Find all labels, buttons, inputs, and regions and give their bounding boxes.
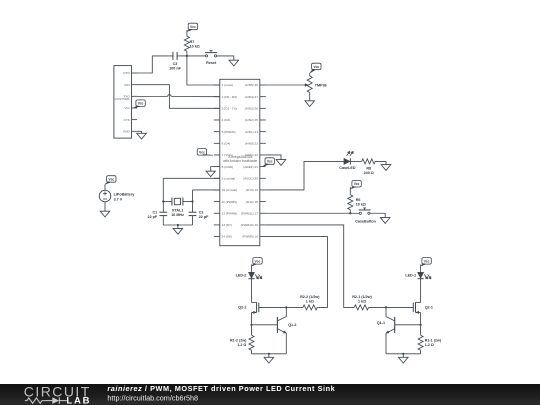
svg-text:GND: GND [123, 129, 131, 133]
svg-text:10 (crystal): 10 (crystal) [222, 188, 237, 192]
svg-text:Vcc: Vcc [138, 102, 144, 106]
svg-text:C1: C1 [152, 211, 157, 215]
svg-text:(D12) 18: (D12) 18 [246, 200, 258, 204]
svg-text:R7: R7 [190, 40, 195, 44]
svg-text:R1-1 (2w): R1-1 (2w) [425, 338, 442, 342]
svg-text:R1-2 (2w): R1-2 (2w) [230, 338, 247, 342]
svg-text:Vcc: Vcc [125, 106, 131, 110]
svg-text:(AVCC) 20: (AVCC) 20 [243, 176, 258, 180]
svg-text:rainierez / PWM, MOSFET driven: rainierez / PWM, MOSFET driven Power LED… [107, 384, 335, 393]
svg-text:3 (D1 - TX): 3 (D1 - TX) [222, 106, 237, 110]
svg-text:10 kΩ: 10 kΩ [356, 203, 366, 207]
svg-text:13 (D7): 13 (D7) [222, 223, 232, 227]
svg-text:LED-2: LED-2 [236, 273, 247, 277]
svg-text:CaseLED: CaseLED [339, 166, 356, 170]
svg-text:CUSTOM1: CUSTOM1 [115, 97, 130, 101]
svg-text:C3: C3 [173, 62, 178, 66]
svg-text:1 kΩ: 1 kΩ [358, 299, 366, 303]
svg-text:Q1-2: Q1-2 [288, 323, 296, 327]
svg-text:R2-2 (1/2w): R2-2 (1/2w) [300, 295, 320, 299]
svg-text:14 (D8): 14 (D8) [222, 235, 232, 239]
svg-text:Vcc: Vcc [424, 259, 430, 263]
svg-text:10 kΩ: 10 kΩ [190, 45, 200, 49]
svg-text:(AIN3) 26: (AIN3) 26 [245, 106, 259, 110]
svg-text:(PWM10) 16: (PWM10) 16 [241, 223, 259, 227]
svg-text:(AREF) 21: (AREF) 21 [243, 165, 258, 169]
svg-text:Vcc: Vcc [354, 182, 360, 186]
svg-text:TMP36: TMP36 [315, 83, 327, 87]
svg-text:1 kΩ: 1 kΩ [306, 299, 314, 303]
svg-text:Vcc: Vcc [313, 65, 319, 69]
svg-text:5 (PWM3): 5 (PWM3) [222, 130, 236, 134]
svg-text:3.7 V: 3.7 V [114, 197, 123, 201]
svg-text:http://circuitlab.com/cb6r5h8: http://circuitlab.com/cb6r5h8 [107, 394, 198, 403]
svg-text:LED-1: LED-1 [405, 273, 416, 277]
svg-text:100 nF: 100 nF [169, 67, 181, 71]
svg-text:22 pF: 22 pF [199, 215, 209, 219]
svg-text:C2: C2 [199, 211, 204, 215]
svg-text:LAB: LAB [66, 396, 91, 405]
svg-text:(AIN0) 23: (AIN0) 23 [245, 141, 259, 145]
svg-text:Vcc: Vcc [267, 160, 273, 164]
svg-text:240 Ω: 240 Ω [364, 171, 374, 175]
svg-text:CTS: CTS [124, 118, 130, 122]
svg-text:9 (crystal): 9 (crystal) [222, 176, 236, 180]
svg-text:R2-1 (1/2w): R2-1 (1/2w) [352, 295, 372, 299]
svg-text:R8: R8 [366, 166, 371, 170]
svg-text:(PWM11) 17: (PWM11) 17 [241, 211, 258, 215]
svg-text:Vcc: Vcc [190, 25, 196, 29]
svg-text:R6: R6 [356, 198, 361, 202]
svg-text:8 (GND): 8 (GND) [222, 165, 234, 169]
svg-text:XTAL1: XTAL1 [172, 208, 183, 212]
svg-text:Q2-1: Q2-1 [425, 306, 433, 310]
svg-text:Vcc: Vcc [255, 259, 261, 263]
svg-text:RXI: RXI [125, 83, 130, 87]
svg-text:(D13) 19: (D13) 19 [246, 188, 258, 192]
svg-text:4 (D2): 4 (D2) [222, 118, 231, 122]
svg-text:2 (D0 - RX): 2 (D0 - RX) [222, 95, 238, 99]
svg-text:(AIN4) 27: (AIN4) 27 [245, 95, 259, 99]
svg-text:Reset: Reset [206, 61, 217, 65]
svg-text:LiPoBattery: LiPoBattery [114, 193, 136, 197]
svg-text:1.2 Ω: 1.2 Ω [425, 343, 434, 347]
svg-text:Q1-1: Q1-1 [377, 321, 385, 325]
svg-text:Vcc: Vcc [199, 150, 205, 154]
svg-text:Vcc: Vcc [108, 177, 114, 181]
svg-text:6 (D4): 6 (D4) [222, 141, 231, 145]
svg-text:(AIN1) 24: (AIN1) 24 [245, 130, 259, 134]
svg-text:1 (reset): 1 (reset) [222, 83, 234, 87]
svg-text:(AIN2) 25: (AIN2) 25 [245, 118, 259, 122]
svg-text:11 (PWM5): 11 (PWM5) [222, 200, 237, 204]
svg-text:(PWM9) 15: (PWM9) 15 [242, 235, 258, 239]
svg-text:22 pF: 22 pF [148, 215, 158, 219]
svg-text:16 MHz: 16 MHz [171, 213, 184, 217]
svg-text:1.2 Ω: 1.2 Ω [237, 343, 246, 347]
svg-text:Q2-2: Q2-2 [238, 306, 246, 310]
svg-text:CaseButton: CaseButton [355, 220, 376, 224]
svg-text:DTR: DTR [123, 71, 130, 75]
svg-text:12 (PWM6): 12 (PWM6) [222, 211, 238, 215]
svg-text:(AIN5) 28: (AIN5) 28 [245, 83, 259, 87]
svg-text:with Arduino bootloader: with Arduino bootloader [223, 159, 258, 163]
